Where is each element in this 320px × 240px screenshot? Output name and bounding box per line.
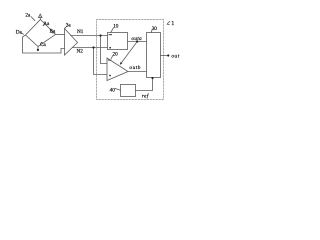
svg-text:40: 40 bbox=[110, 87, 116, 93]
svg-text:20: 20 bbox=[113, 51, 119, 57]
svg-text:Ca: Ca bbox=[40, 42, 46, 48]
svg-text:30: 30 bbox=[152, 26, 158, 32]
svg-text:2a: 2a bbox=[25, 13, 31, 19]
svg-text:3a: 3a bbox=[66, 23, 72, 29]
svg-text:out: out bbox=[171, 53, 179, 59]
svg-text:N2: N2 bbox=[77, 49, 84, 55]
svg-text:1: 1 bbox=[171, 21, 174, 27]
svg-text:Ba: Ba bbox=[50, 28, 56, 34]
svg-text:ref: ref bbox=[142, 93, 150, 100]
svg-text:outa: outa bbox=[131, 36, 142, 42]
svg-text:Da: Da bbox=[16, 30, 23, 36]
svg-text:outb: outb bbox=[129, 65, 141, 71]
svg-text:Aa: Aa bbox=[43, 21, 50, 27]
svg-text:N1: N1 bbox=[77, 29, 84, 35]
svg-text:10: 10 bbox=[113, 23, 119, 29]
